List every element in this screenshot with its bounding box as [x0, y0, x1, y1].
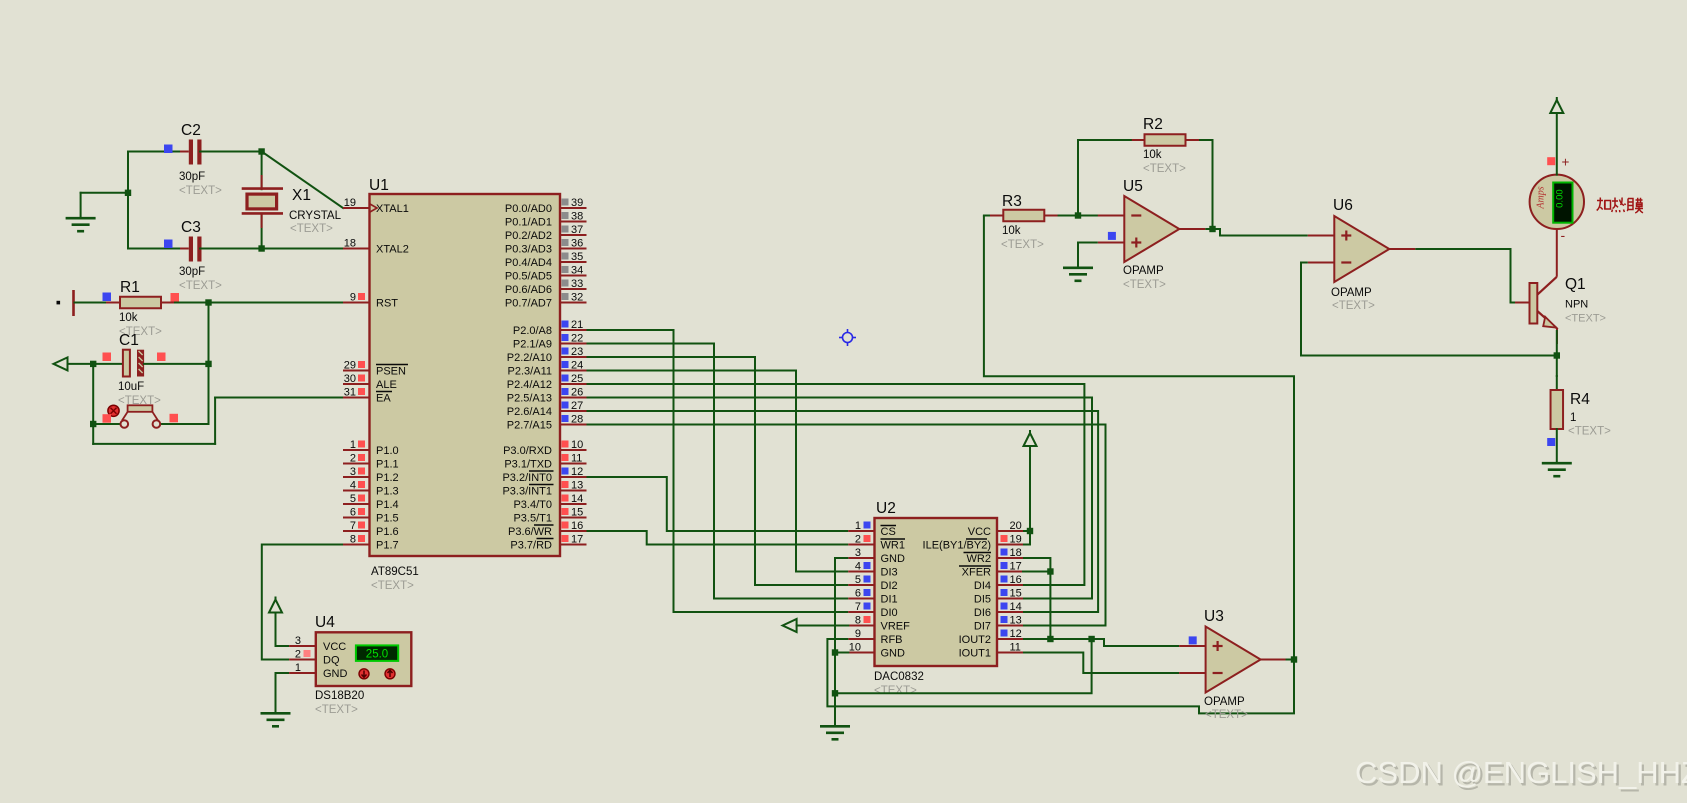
pin 14 P3.4/T0 (U1) [513, 493, 586, 511]
pin 11 IOUT1 (U2) [959, 642, 1023, 660]
svg-text:<TEXT>: <TEXT> [179, 280, 222, 292]
pin 31 EA (U1) [343, 387, 392, 405]
svg-text:15: 15 [571, 507, 583, 519]
wire button right terminal to RST vertical [160, 423, 209, 425]
wire GND pin3 down to ground rail [835, 558, 848, 726]
svg-text:16: 16 [571, 520, 583, 532]
pin 10 P3.0/RXD (U1) [503, 439, 586, 457]
wire P3.2 to CS [587, 477, 849, 531]
pin 35 P0.4/AD4 (U1) [505, 251, 587, 269]
pin 19 ILE(BY1/BY2) (U2) [923, 534, 1023, 552]
svg-text:DI7: DI7 [974, 621, 991, 633]
wire U6 minus feedback [1301, 263, 1557, 356]
wire VCC of U4 to power [276, 612, 290, 646]
svg-text:5: 5 [350, 493, 356, 505]
svg-text:VCC: VCC [968, 526, 991, 538]
svg-text:VREF: VREF [881, 621, 911, 633]
crystal X1 [242, 175, 283, 228]
svg-text:26: 26 [571, 387, 583, 399]
state square C1 left [103, 353, 112, 362]
wire P2.2 to DI2 [587, 357, 849, 585]
state square C2 [164, 145, 173, 154]
svg-text:25.0: 25.0 [366, 649, 388, 661]
svg-text:27: 27 [571, 400, 583, 412]
svg-text:10: 10 [571, 439, 583, 451]
svg-text:37: 37 [571, 224, 583, 236]
svg-text:U5: U5 [1123, 178, 1143, 195]
svg-text:XFER: XFER [962, 567, 991, 579]
ground (oscillator) [66, 218, 96, 231]
svg-text:1: 1 [855, 520, 861, 532]
svg-text:35: 35 [571, 251, 583, 263]
wire P2.3 to DI3 [587, 371, 849, 572]
wire to button left terminal [93, 423, 121, 425]
node R3/R2 junction [1075, 212, 1081, 218]
svg-text:<TEXT>: <TEXT> [290, 223, 333, 235]
svg-text:29: 29 [344, 360, 356, 372]
svg-text:33: 33 [571, 278, 583, 290]
svg-text:2: 2 [350, 453, 356, 465]
svg-text:-: - [1561, 227, 1566, 243]
svg-text:30pF: 30pF [179, 171, 205, 183]
wire crystal node diagonal to XTAL1 [262, 152, 343, 209]
svg-text:P3.2/INT0: P3.2/INT0 [502, 472, 552, 484]
svg-text:P0.1/AD1: P0.1/AD1 [505, 217, 552, 229]
svg-text:7: 7 [855, 601, 861, 613]
button down (U4) [385, 669, 395, 679]
terminal arrow (VREF) [783, 619, 797, 632]
wire IOUT2 ground link [835, 639, 1092, 693]
svg-text:IOUT1: IOUT1 [959, 648, 991, 660]
svg-text:<TEXT>: <TEXT> [1565, 313, 1606, 325]
svg-text:DI1: DI1 [881, 594, 898, 606]
svg-text:<TEXT>: <TEXT> [1143, 163, 1186, 175]
wire U3 output to R3 riser [984, 216, 1294, 660]
pin 5 DI2 (U2) [848, 574, 897, 592]
pin 1 GND (U4) [289, 662, 347, 680]
wire XFER tee [1023, 571, 1050, 573]
node VCC pin20 [1027, 528, 1033, 534]
state square button left [103, 414, 112, 423]
terminal arrow (C1 left) [54, 357, 68, 370]
wire terminal to C1 [68, 363, 124, 365]
watermark CSDN @ENGLISH_HHZ [1355, 755, 1687, 792]
svg-text:3: 3 [350, 466, 356, 478]
svg-text:14: 14 [1010, 601, 1022, 613]
wire RFB to U3 output rail [827, 639, 1294, 713]
resistor R2 [1145, 134, 1186, 146]
svg-text:6: 6 [855, 588, 861, 600]
node IOUT2 ground branch [832, 690, 838, 696]
svg-text:P1.4: P1.4 [376, 499, 399, 511]
pin 29 PSEN (U1) [343, 360, 408, 378]
pin 17 P3.7/RD (U1) [510, 534, 586, 552]
pin 37 P0.2/AD2 (U1) [505, 224, 587, 242]
ammeter (heater current) [1530, 175, 1584, 229]
svg-text:15: 15 [1010, 588, 1022, 600]
resistor R3 [1003, 210, 1044, 222]
svg-text:22: 22 [571, 333, 583, 345]
op-amp U3 [1206, 627, 1261, 693]
wire R2 feedback vertical [1077, 140, 1079, 216]
svg-text:P1.7: P1.7 [376, 540, 399, 552]
node emitter/R4 junction [1554, 352, 1560, 358]
push button (reset) [108, 405, 160, 428]
svg-text:P2.2/A10: P2.2/A10 [507, 352, 552, 364]
wire C1 right plate to node [144, 363, 208, 365]
pin 17 XFER (U2) [959, 561, 1023, 579]
svg-text:P0.3/AD3: P0.3/AD3 [505, 244, 552, 256]
svg-text:P2.5/A13: P2.5/A13 [507, 393, 552, 405]
svg-text:AT89C51: AT89C51 [371, 566, 419, 578]
pin 22 P2.1/A9 (U1) [513, 333, 587, 351]
svg-text:<TEXT>: <TEXT> [371, 580, 414, 592]
pin 14 DI6 (U2) [974, 601, 1023, 619]
wire R4 top [1556, 376, 1558, 390]
state square U5 plus input [1108, 232, 1116, 240]
wire P1.7 to DQ [262, 545, 343, 660]
svg-text:10k: 10k [1143, 149, 1162, 161]
state square U3 plus input [1189, 636, 1197, 644]
wire U5 output jog to U6 plus [1205, 229, 1308, 236]
svg-text:DQ: DQ [323, 655, 340, 667]
pin 2 DQ (U4) [289, 649, 340, 667]
transistor Q1 [1515, 229, 1557, 344]
svg-text:P3.7/RD: P3.7/RD [510, 540, 552, 552]
svg-text:U3: U3 [1204, 608, 1224, 625]
wire IOUT1 to U3 minus [1023, 653, 1179, 674]
svg-text:R1: R1 [120, 279, 140, 296]
pin 15 DI5 (U2) [974, 588, 1023, 606]
wire P3.6 to WR1 [587, 531, 849, 545]
pin 13 P3.3/INT1 (U1) [502, 480, 586, 498]
wire P2.1 to DI1 [587, 344, 849, 599]
svg-text:P2.0/A8: P2.0/A8 [513, 325, 552, 337]
svg-text:IOUT2: IOUT2 [959, 634, 991, 646]
svg-text:24: 24 [571, 360, 583, 372]
node XFER tee [1047, 568, 1053, 574]
svg-text:C3: C3 [181, 219, 201, 236]
svg-text:30pF: 30pF [179, 266, 205, 278]
pin 2 WR1 (U2) [848, 534, 905, 552]
svg-text:P3.0/RXD: P3.0/RXD [503, 445, 552, 457]
wire P2.6 to DI6 [587, 411, 1099, 612]
svg-text:NPN: NPN [1565, 299, 1588, 311]
wire to C2 left plate [128, 151, 186, 153]
svg-text:28: 28 [571, 414, 583, 426]
node U5 output [1209, 226, 1215, 232]
pin 9 RST (U1) [343, 292, 398, 310]
svg-text:DAC0832: DAC0832 [874, 671, 924, 683]
node junction C2/C3 branch [125, 190, 131, 196]
svg-text:P3.4/T0: P3.4/T0 [513, 499, 552, 511]
svg-text:39: 39 [571, 197, 583, 209]
svg-text:6: 6 [350, 507, 356, 519]
svg-text:R3: R3 [1002, 193, 1022, 210]
pin 16 P3.6/WR (U1) [508, 520, 587, 538]
wire GND of U4 to ground [276, 673, 290, 713]
state square button right [170, 414, 179, 423]
svg-text:U4: U4 [315, 614, 335, 631]
state square C3 [164, 240, 173, 249]
wire R2 right to U5 output [1199, 140, 1213, 229]
svg-text:18: 18 [344, 238, 356, 250]
wire C1 branch vertical [92, 364, 94, 444]
svg-text:21: 21 [571, 319, 583, 331]
svg-text:38: 38 [571, 211, 583, 223]
capacitor C2 [180, 140, 222, 165]
wire to C3 left plate [128, 248, 186, 250]
pin 24 P2.3/A11 (U1) [508, 360, 587, 378]
svg-text:<TEXT>: <TEXT> [315, 704, 358, 716]
svg-text:10k: 10k [1002, 225, 1021, 237]
pin 1 P1.0 (U1) [343, 439, 399, 457]
pin 25 P2.4/A12 (U1) [507, 373, 587, 391]
pin 21 P2.0/A8 (U1) [513, 319, 587, 337]
pin 11 P3.1/TXD (U1) [504, 453, 586, 471]
pin 4 P1.3 (U1) [343, 480, 399, 498]
svg-text:14: 14 [571, 493, 583, 505]
node button left branch [90, 421, 96, 427]
pin 12 IOUT2 (U2) [959, 628, 1023, 646]
svg-text:36: 36 [571, 238, 583, 250]
pin 9 RFB (U2) [848, 628, 902, 646]
svg-text:P1.5: P1.5 [376, 513, 399, 525]
svg-text:EA: EA [376, 393, 391, 405]
svg-text:XTAL1: XTAL1 [376, 203, 409, 215]
pin 4 DI3 (U2) [848, 561, 897, 579]
node RST junction [205, 299, 211, 305]
svg-text:19: 19 [1010, 534, 1022, 546]
svg-text:1: 1 [1570, 412, 1576, 424]
svg-text:P0.0/AD0: P0.0/AD0 [505, 203, 552, 215]
resistor R4 [1551, 390, 1564, 429]
svg-text:P2.7/A15: P2.7/A15 [507, 420, 552, 432]
wire EA vertical [214, 398, 216, 444]
svg-text:4: 4 [855, 561, 861, 573]
pin 34 P0.5/AD5 (U1) [505, 265, 587, 283]
svg-text:32: 32 [571, 292, 583, 304]
svg-text:P0.6/AD6: P0.6/AD6 [505, 284, 552, 296]
svg-text:10uF: 10uF [118, 381, 144, 393]
chip U4 DS18B20 body [316, 632, 412, 686]
svg-text:12: 12 [1010, 628, 1022, 640]
svg-text:P1.0: P1.0 [376, 445, 399, 457]
svg-text:P0.4/AD4: P0.4/AD4 [505, 257, 552, 269]
svg-text:GND: GND [881, 648, 906, 660]
capacitor C3 [180, 237, 222, 262]
svg-text:RST: RST [376, 298, 398, 310]
pin 36 P0.3/AD3 (U1) [505, 238, 587, 256]
svg-text:P3.6/WR: P3.6/WR [508, 526, 552, 538]
wire P2.4 to DI4 [587, 384, 1085, 585]
pin 30 ALE (U1) [343, 373, 397, 391]
power arrow (U2) [1024, 430, 1037, 446]
op-amp U5 [1124, 196, 1179, 262]
svg-text:P2.3/A11: P2.3/A11 [508, 366, 552, 378]
wire R3 to U5 minus [1059, 215, 1125, 217]
svg-text:P2.1/A9: P2.1/A9 [513, 339, 552, 351]
svg-text:2: 2 [855, 534, 861, 546]
origin crosshair marker [839, 329, 856, 346]
state square C1 right [157, 353, 166, 362]
pin 6 P1.5 (U1) [343, 507, 399, 525]
wire R2 left [1078, 139, 1132, 141]
svg-text:<TEXT>: <TEXT> [1123, 279, 1166, 291]
capacitor C1 (electrolytic) [123, 350, 144, 377]
wire P2.5 to DI5 [587, 398, 1093, 599]
svg-text:<TEXT>: <TEXT> [179, 185, 222, 197]
pin 3 VCC (U4) [289, 635, 346, 653]
wire crystal bottom stem [261, 214, 263, 249]
wire C2/C3 left vertical [127, 152, 129, 249]
wire C2 right plate to crystal node [200, 151, 262, 153]
pin 26 P2.5/A13 (U1) [507, 387, 587, 405]
svg-text:ALE: ALE [376, 379, 397, 391]
node GND pin10 tee [832, 649, 838, 655]
svg-text:P1.6: P1.6 [376, 526, 399, 538]
svg-text:17: 17 [1010, 561, 1022, 573]
svg-text:P2.4/A12: P2.4/A12 [507, 379, 552, 391]
svg-text:+: + [1562, 155, 1570, 170]
chip U1 AT89C51 body [370, 194, 561, 556]
svg-text:11: 11 [571, 453, 582, 465]
wire RST node vertical [208, 303, 210, 425]
pin 13 DI7 (U2) [974, 615, 1023, 633]
svg-text:P2.6/A14: P2.6/A14 [507, 406, 552, 418]
ground (U2) [820, 726, 850, 739]
svg-text:VCC: VCC [323, 641, 346, 653]
wire WR2 XFER IOUT2 tie [1023, 558, 1050, 639]
node IOUT2 tie [1047, 636, 1053, 642]
pin 7 DI0 (U2) [848, 601, 897, 619]
svg-text:ILE(BY1/BY2): ILE(BY1/BY2) [923, 540, 991, 552]
wire power to meter [1556, 110, 1558, 175]
resistor R1 stubs [106, 302, 175, 304]
svg-text:<TEXT>: <TEXT> [1001, 239, 1044, 251]
svg-text:Amps: Amps [1536, 186, 1547, 209]
svg-text:DI3: DI3 [881, 567, 898, 579]
svg-text:3: 3 [295, 635, 301, 647]
svg-text:2: 2 [295, 649, 301, 661]
wire GND pin10 [835, 652, 848, 654]
svg-text:23: 23 [571, 346, 583, 358]
state square R4 bottom [1547, 438, 1555, 446]
pin 16 DI4 (U2) [974, 574, 1023, 592]
wire VREF terminal [797, 625, 849, 627]
svg-text:OPAMP: OPAMP [1123, 265, 1164, 277]
svg-text:P1.2: P1.2 [376, 472, 399, 484]
svg-text:CS: CS [881, 526, 896, 538]
wire EA to U1 [215, 397, 343, 399]
wire cell to R1 [75, 302, 110, 304]
power arrow (meter) [1550, 97, 1563, 113]
resistor R1 [120, 297, 161, 309]
svg-text:0.00: 0.00 [1555, 189, 1566, 208]
power arrow (U4) [269, 597, 282, 613]
svg-text:WR2: WR2 [967, 553, 991, 565]
svg-text:9: 9 [855, 628, 861, 640]
wire R4 to ground [1556, 429, 1558, 463]
svg-text:3: 3 [855, 547, 861, 559]
pin 3 GND (U2) [848, 547, 905, 565]
svg-text:P3.5/T1: P3.5/T1 [513, 513, 552, 525]
pin 38 P0.1/AD1 (U1) [505, 211, 587, 229]
wire VCC arrow stem (U2) [1029, 446, 1031, 531]
wire crystal top stem [261, 152, 263, 190]
svg-text:DI0: DI0 [881, 607, 898, 619]
svg-text:OPAMP: OPAMP [1204, 696, 1245, 708]
svg-text:GND: GND [881, 553, 906, 565]
svg-text:P1.3: P1.3 [376, 486, 399, 498]
svg-text:WR1: WR1 [881, 540, 905, 552]
svg-text:RFB: RFB [881, 634, 903, 646]
svg-text:DI2: DI2 [881, 580, 898, 592]
svg-text:DI5: DI5 [974, 594, 991, 606]
svg-text:12: 12 [571, 466, 583, 478]
ground (U5) [1063, 268, 1093, 281]
svg-text:PSEN: PSEN [376, 366, 406, 378]
svg-text:19: 19 [344, 197, 356, 209]
ground (R4) [1542, 463, 1572, 476]
svg-text:9: 9 [350, 292, 356, 304]
svg-text:Q1: Q1 [1565, 276, 1586, 293]
svg-text:<TEXT>: <TEXT> [874, 685, 917, 697]
resistor R3 stubs [989, 215, 1059, 217]
label 加热膜 (heating film) [1597, 198, 1643, 214]
wire U5 plus to ground [1078, 243, 1098, 268]
svg-text:R2: R2 [1143, 116, 1163, 133]
svg-text:30: 30 [344, 373, 356, 385]
pin 15 P3.5/T1 (U1) [513, 507, 586, 525]
pin 12 P3.2/INT0 (U1) [502, 466, 586, 484]
svg-text:OPAMP: OPAMP [1331, 287, 1372, 299]
wire P2.0 to DI0 [587, 330, 849, 612]
wire ILE to VCC [1023, 531, 1030, 545]
node IOUT2 branch [1088, 636, 1094, 642]
pin 7 P1.6 (U1) [343, 520, 399, 538]
svg-text:P0.7/AD7: P0.7/AD7 [505, 298, 552, 310]
display 25.0 (U4) [356, 645, 398, 661]
wire C3 right plate to XTAL2 [200, 248, 343, 250]
svg-text:1: 1 [350, 439, 356, 451]
svg-text:R4: R4 [1570, 391, 1590, 408]
svg-text:34: 34 [571, 265, 583, 277]
wire P2.7 to DI7 [587, 425, 1106, 626]
pin 1 CS (U2) [848, 520, 896, 538]
svg-text:5: 5 [855, 574, 861, 586]
wire VCC power (U2) [1023, 530, 1030, 532]
svg-text:8: 8 [855, 615, 861, 627]
wire ground stem [80, 193, 82, 218]
pin 32 P0.7/AD7 (U1) [505, 292, 587, 310]
button up (U4) [359, 669, 369, 679]
pin 8 VREF (U2) [848, 615, 910, 633]
ground (U4) [261, 713, 291, 726]
svg-text:10: 10 [849, 642, 861, 654]
svg-text:<TEXT>: <TEXT> [1568, 426, 1611, 438]
svg-text:13: 13 [1010, 615, 1022, 627]
svg-text:U1: U1 [369, 177, 389, 194]
svg-text:16: 16 [1010, 574, 1022, 586]
svg-text:P1.1: P1.1 [376, 459, 399, 471]
pin 19 XTAL1 (U1) [343, 197, 409, 215]
state square R1 left [103, 293, 112, 302]
state square meter plus [1547, 157, 1555, 165]
svg-text:13: 13 [571, 480, 583, 492]
svg-text:11: 11 [1010, 642, 1021, 654]
svg-text:<TEXT>: <TEXT> [1332, 300, 1375, 312]
